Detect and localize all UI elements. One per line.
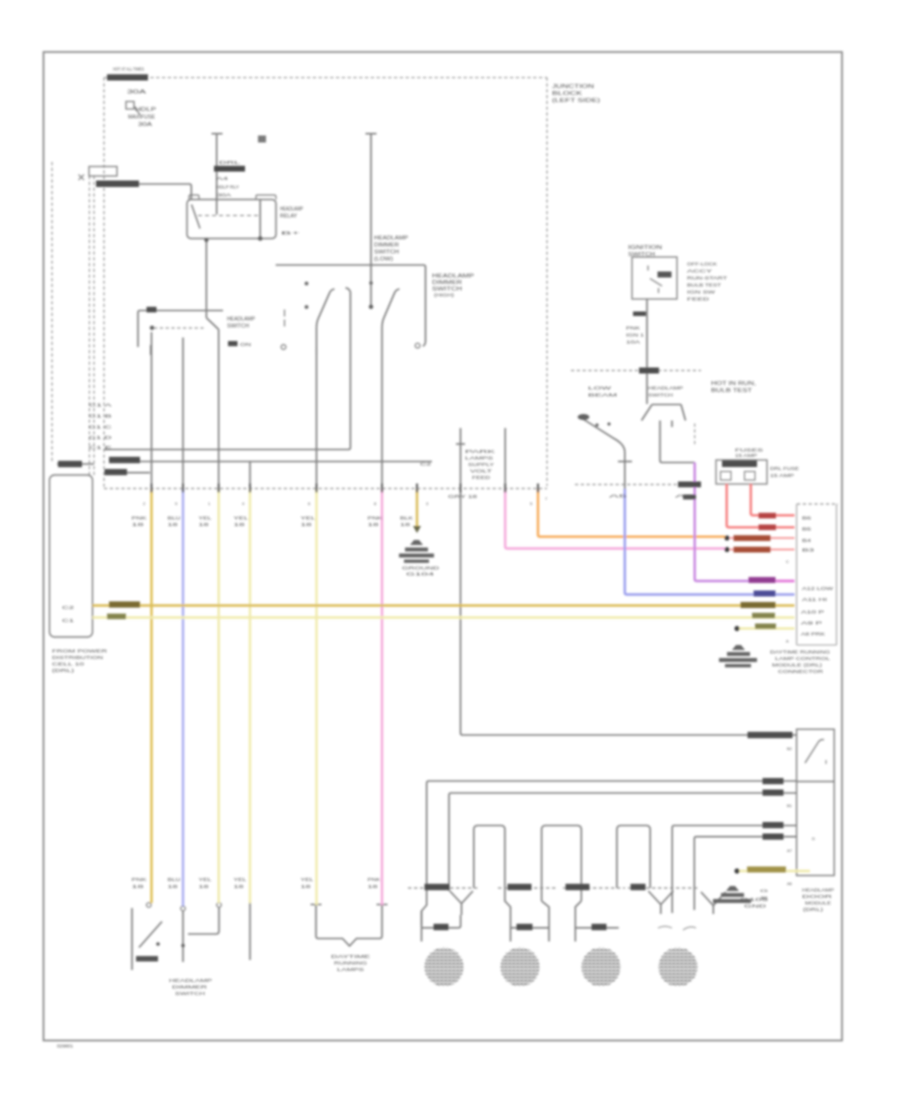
svg-text:MODULE (DRL): MODULE (DRL) <box>772 663 823 669</box>
wire: relay output leg <box>259 200 261 241</box>
ground G2 <box>719 645 757 667</box>
label wire to B2 <box>748 732 793 738</box>
label pin rows <box>109 457 140 463</box>
page border frame (decorative) <box>44 52 843 1041</box>
svg-text:18: 18 <box>301 884 312 889</box>
svg-text:C1 E: C1 E <box>89 445 112 450</box>
headlamp low connector V1 <box>450 891 473 915</box>
wire pale yellow 1 <box>217 489 219 903</box>
lamp base labels <box>434 924 449 930</box>
svg-text:18: 18 <box>132 522 145 527</box>
svg-text:YEL: YEL <box>199 877 213 882</box>
label ground lead left <box>58 461 82 467</box>
label between park verticals <box>465 449 495 480</box>
wire: dimmer feed stub <box>370 134 372 307</box>
wire pale yellow 3 <box>315 489 317 905</box>
svg-text:30A: 30A <box>217 193 233 198</box>
headlamp connector V2 <box>648 891 673 914</box>
svg-text:BLOCK: BLOCK <box>552 91 583 97</box>
svg-text:MODULE: MODULE <box>805 901 831 906</box>
lamp 1 base <box>422 911 461 928</box>
label ign wire <box>633 312 646 317</box>
label purple pins <box>678 482 701 488</box>
wire red tail of pink <box>730 549 795 551</box>
wire: filament loop 2 <box>542 826 582 902</box>
wire: dimmer box outline <box>276 265 426 346</box>
svg-text:RUN-START: RUN-START <box>687 276 727 282</box>
headlamp connector V3 <box>701 892 726 914</box>
svg-text:HOT IN RUN,: HOT IN RUN, <box>711 381 756 387</box>
svg-text:B2: B2 <box>787 746 793 751</box>
label yellow splice <box>747 867 786 873</box>
multifunction switch 2 trapezoid <box>642 405 686 421</box>
svg-text:BEAM: BEAM <box>588 393 617 399</box>
svg-text:C2: C2 <box>420 462 432 467</box>
svg-text:A6: A6 <box>787 881 793 886</box>
lamp 2 base <box>511 927 550 929</box>
node A: switch out to yellow <box>151 332 153 489</box>
svg-text:A10 P: A10 P <box>801 610 824 615</box>
wire yellow DRL <box>150 489 152 903</box>
svg-text:ON: ON <box>240 342 251 347</box>
svg-text:30A: 30A <box>138 122 153 128</box>
wire: lamp feed 4 <box>694 837 796 910</box>
svg-text:DIMMER: DIMMER <box>172 985 208 990</box>
svg-text:A6: A6 <box>675 494 697 499</box>
ignition dashed box <box>571 370 701 372</box>
svg-text:SUPPLY: SUPPLY <box>468 462 494 467</box>
wire red fuse 2 <box>751 484 795 515</box>
bus pin ticks <box>152 484 539 493</box>
svg-text:(DRL): (DRL) <box>52 668 75 673</box>
svg-text:C: C <box>786 560 789 564</box>
svg-text:15 AMP: 15 AMP <box>735 453 757 458</box>
wire: filament loop 3 <box>617 826 650 889</box>
wire: switch feed bar <box>138 311 223 348</box>
wire: junction pin rows <box>109 461 432 463</box>
wire magenta right of label <box>749 580 795 582</box>
svg-text:18: 18 <box>368 884 379 889</box>
svg-text:B+: B+ <box>281 231 301 236</box>
label feed wire DRL <box>96 181 139 188</box>
svg-text:C1 C: C1 C <box>89 425 112 430</box>
svg-text:FUSES: FUSES <box>735 448 763 453</box>
svg-text:IGNITION: IGNITION <box>628 245 663 251</box>
svg-text:FROM POWER: FROM POWER <box>52 649 108 654</box>
svg-text:HEADLAMP: HEADLAMP <box>802 888 834 893</box>
svg-text:9: 9 <box>175 501 177 506</box>
wire pink park <box>505 489 725 549</box>
svg-text:D: D <box>812 836 815 841</box>
junction block dashed outline <box>52 78 838 504</box>
pin numbers below bus <box>143 496 547 506</box>
wire: lamp feed 2 <box>449 793 797 891</box>
svg-text:PNK: PNK <box>626 326 641 331</box>
B1 pin labels <box>786 516 834 644</box>
svg-text:30A: 30A <box>127 90 147 96</box>
svg-text:BLU: BLU <box>168 516 181 521</box>
wire purple <box>695 463 795 582</box>
svg-text:C2: C2 <box>62 605 75 610</box>
svg-text:A7: A7 <box>787 848 793 853</box>
svg-text:IGN SW: IGN SW <box>687 290 716 296</box>
svg-text:HOT AT ALL TIMES: HOT AT ALL TIMES <box>113 67 144 72</box>
wire gold stub to ground <box>416 489 418 528</box>
svg-text:PNK: PNK <box>132 877 147 882</box>
stub L3 <box>249 903 251 960</box>
wire pale yellow long <box>93 616 795 618</box>
svg-text:6: 6 <box>308 501 310 506</box>
svg-text:RUNNING: RUNNING <box>334 961 368 966</box>
label on switch feed bar <box>147 307 157 313</box>
svg-text:G104: G104 <box>406 572 435 577</box>
wire pale yellow 2 <box>249 489 251 903</box>
svg-text:FEED: FEED <box>472 475 490 480</box>
svg-text:MAXIFUSE: MAXIFUSE <box>128 115 156 121</box>
bottom right module box B2 <box>797 729 835 875</box>
svg-text:A9 P: A9 P <box>801 621 822 626</box>
svg-text:B4: B4 <box>802 538 812 543</box>
svg-text:G: G <box>760 888 768 893</box>
terminal circles bottom left <box>147 903 152 908</box>
svg-text:PNK: PNK <box>368 516 383 521</box>
svg-text:DAYTIME: DAYTIME <box>331 954 370 959</box>
wire lt blue <box>182 489 184 906</box>
svg-text:A4: A4 <box>216 176 229 181</box>
svg-text:LOW: LOW <box>588 386 612 392</box>
label magenta wire <box>749 577 776 583</box>
wire: feed from junction to relay <box>96 184 191 200</box>
svg-text:A12 LOW: A12 LOW <box>802 586 834 591</box>
wire (left shield dashed) <box>51 162 53 461</box>
svg-text:HEADLAMP: HEADLAMP <box>374 236 409 242</box>
ground G3 <box>713 886 751 903</box>
svg-text:18: 18 <box>234 522 246 527</box>
svg-text:SWITCH: SWITCH <box>628 252 656 258</box>
svg-text:(LOW): (LOW) <box>374 257 393 263</box>
bus pin color labels <box>132 494 479 527</box>
svg-text:GND: GND <box>744 904 768 909</box>
lamp terminal row labels <box>425 884 450 890</box>
wire pink <box>381 489 383 905</box>
svg-text:RELAY: RELAY <box>280 214 298 220</box>
svg-text:PNK: PNK <box>132 516 147 521</box>
svg-text:18: 18 <box>199 884 210 889</box>
label gold wire right <box>741 602 776 608</box>
bottom wire color labels <box>132 877 381 889</box>
svg-text:(DRL): (DRL) <box>803 907 824 912</box>
svg-text:A5: A5 <box>609 494 629 499</box>
label on ign dashed line <box>639 368 659 374</box>
flash-to-pass bracket L4 <box>311 904 388 906</box>
bulb circles <box>425 948 698 987</box>
wire: park lamp verticals <box>461 428 797 735</box>
wire: relay to headlamp switch <box>205 239 207 319</box>
svg-text:7: 7 <box>545 496 547 501</box>
fuse box right <box>716 460 767 484</box>
svg-text:GRY 18: GRY 18 <box>448 494 478 499</box>
wire: dimmer contact S-curve down <box>317 289 335 489</box>
svg-text:18: 18 <box>168 522 179 527</box>
svg-text:SWITCH: SWITCH <box>175 991 205 996</box>
svg-text:SWITCH: SWITCH <box>227 324 249 330</box>
svg-text:10A: 10A <box>626 340 642 345</box>
wire pale yellow splice row <box>737 627 795 629</box>
left lamp switch L1 <box>131 908 133 970</box>
svg-text:YEL: YEL <box>234 516 250 521</box>
connector X (shield) <box>89 167 117 177</box>
svg-text:HEADLAMP: HEADLAMP <box>169 978 212 983</box>
wire: tap from pin row <box>249 462 251 490</box>
ignition switch box <box>632 257 677 299</box>
wire: lamp feed 1 <box>422 781 797 942</box>
svg-text:B1: B1 <box>787 803 793 808</box>
wire pale yellow to B2 <box>737 870 810 872</box>
svg-text:DRL: DRL <box>219 160 241 166</box>
svg-text:IGN 1: IGN 1 <box>626 333 645 338</box>
wire gold long <box>93 604 795 606</box>
wire: relay coil stub from top <box>216 134 218 215</box>
svg-text:YEL: YEL <box>234 877 248 882</box>
wire red tail of orange <box>730 537 795 539</box>
switch1 contact blob <box>578 414 590 420</box>
wire blue low beam <box>625 489 795 595</box>
svg-text:DOOR: DOOR <box>802 894 833 899</box>
headlamp switch contacts <box>150 326 154 330</box>
svg-text:15 AMP: 15 AMP <box>770 473 794 479</box>
wire: wiper down <box>218 330 220 490</box>
wire red fuse 1 <box>727 484 795 527</box>
label red wires <box>759 513 777 519</box>
svg-text:B5: B5 <box>802 527 812 532</box>
svg-text:YEL: YEL <box>199 516 213 521</box>
svg-text:DAYTIME RUNNING: DAYTIME RUNNING <box>770 650 830 656</box>
svg-text:C1 D: C1 D <box>89 435 112 440</box>
B2 pin texts <box>787 746 815 886</box>
svg-text:(LEFT SIDE): (LEFT SIDE) <box>552 98 600 104</box>
svg-text:A8 PRK: A8 PRK <box>801 632 825 637</box>
svg-text:DRL FUSE: DRL FUSE <box>770 466 799 472</box>
wire: lamp feed 3 <box>672 826 796 914</box>
relay K1 <box>187 200 276 239</box>
wire: filament loop 1 <box>474 826 511 942</box>
svg-text:HEADLAMP: HEADLAMP <box>432 274 475 280</box>
svg-text:LAMPS: LAMPS <box>465 456 493 461</box>
svg-text:(HIGH): (HIGH) <box>434 293 455 298</box>
svg-text:PNK: PNK <box>368 877 381 882</box>
node B: switch out to blue <box>182 338 184 490</box>
label gold wire left <box>109 601 140 607</box>
svg-text:029801: 029801 <box>57 1044 74 1049</box>
svg-text:JUNCTION: JUNCTION <box>552 84 594 90</box>
svg-text:3: 3 <box>426 501 428 506</box>
dimmer switch L2 <box>182 911 184 962</box>
svg-text:YEL: YEL <box>301 877 315 882</box>
svg-text:CELL 10: CELL 10 <box>52 662 85 667</box>
svg-text:B3: B3 <box>802 548 816 553</box>
label pale yellow left <box>107 614 126 620</box>
lamp 3 base <box>575 927 618 929</box>
wire: switch wiper <box>207 318 219 330</box>
ground lead line <box>57 463 94 465</box>
svg-text:2: 2 <box>143 501 145 506</box>
label pale yellow right <box>752 613 775 618</box>
labels lamp feeds <box>763 778 784 784</box>
svg-text:18: 18 <box>199 522 210 527</box>
svg-text:S: S <box>760 895 769 900</box>
svg-text:LAMPS: LAMPS <box>337 967 364 972</box>
svg-text:PARK: PARK <box>465 449 495 454</box>
right module box B1 <box>797 504 837 645</box>
svg-text:C1 A: C1 A <box>89 403 112 408</box>
lamp 4 base light marks <box>658 926 696 930</box>
fuse HDLP <box>126 102 140 116</box>
svg-text:A: A <box>786 640 789 644</box>
svg-text:SWITCH: SWITCH <box>648 393 674 399</box>
svg-text:1: 1 <box>208 501 210 506</box>
splice dots <box>724 535 729 540</box>
svg-text:GROUND: GROUND <box>402 566 440 571</box>
svg-text:HEADLAMP: HEADLAMP <box>227 317 256 323</box>
svg-text:SWITCH: SWITCH <box>374 250 399 256</box>
svg-text:ACCY: ACCY <box>687 269 713 275</box>
svg-text:DISTRIBUTION: DISTRIBUTION <box>52 655 103 660</box>
svg-text:FEED: FEED <box>687 297 710 303</box>
svg-text:HDLP RLY: HDLP RLY <box>216 185 239 190</box>
svg-text:4: 4 <box>242 501 245 506</box>
svg-text:CONNECTOR: CONNECTOR <box>778 669 824 675</box>
svg-text:8: 8 <box>374 501 376 506</box>
svg-text:18: 18 <box>132 884 146 889</box>
svg-text:YEL: YEL <box>301 516 317 521</box>
svg-text:18: 18 <box>368 522 380 527</box>
wire: dimmer return hook to junction row <box>104 288 350 450</box>
svg-text:VOLT: VOLT <box>470 469 493 474</box>
label orange wire <box>734 535 771 541</box>
svg-text:BULB TEST: BULB TEST <box>711 388 752 394</box>
svg-text:DIMMER: DIMMER <box>432 280 463 286</box>
svg-text:18: 18 <box>400 522 411 527</box>
svg-text:HEADLAMP: HEADLAMP <box>280 207 304 213</box>
svg-text:OFF-LOCK: OFF-LOCK <box>687 262 718 268</box>
svg-text:C1 B: C1 B <box>89 414 112 419</box>
svg-text:HDLP: HDLP <box>135 107 157 113</box>
svg-text:C1: C1 <box>62 618 75 623</box>
svg-text:18: 18 <box>168 884 179 889</box>
svg-text:18: 18 <box>301 522 313 527</box>
svg-text:DIMMER: DIMMER <box>374 243 399 249</box>
svg-text:HEADLAMP: HEADLAMP <box>648 386 683 392</box>
left connector module box <box>50 475 93 637</box>
svg-text:18: 18 <box>234 884 245 889</box>
terminal row dashes <box>408 887 698 889</box>
svg-text:BLK: BLK <box>400 516 413 521</box>
switch linkage dashed <box>154 327 206 329</box>
svg-text:5: 5 <box>530 501 532 506</box>
svg-text:LAMP CONTROL: LAMP CONTROL <box>775 656 830 662</box>
svg-text:A11 HI: A11 HI <box>802 597 827 602</box>
label blue wire <box>754 591 776 597</box>
svg-text:B6: B6 <box>802 516 812 521</box>
svg-text:BLU: BLU <box>168 877 181 882</box>
wire orange <box>538 489 725 537</box>
ground G1 <box>399 540 434 563</box>
svg-text:BULB TEST: BULB TEST <box>687 283 721 289</box>
switch 1 wiper to blue <box>583 419 625 489</box>
right module dashed top <box>797 503 838 505</box>
wire: ignition switch drop <box>646 299 648 404</box>
label pink wire <box>734 547 771 553</box>
